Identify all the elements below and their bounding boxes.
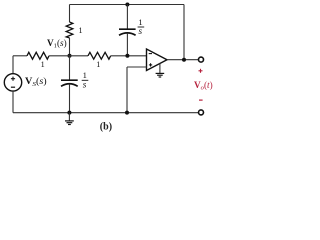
node ground junction [67, 111, 71, 115]
wire left drop from top rail [69, 5, 71, 23]
wire op-amp output [167, 59, 198, 61]
svg-text:1: 1 [96, 60, 100, 69]
wire resistor to node V1 [69, 38, 71, 56]
node A junction (cap / minus input) [125, 54, 129, 58]
resistor R1 value 1 (horizontal) [27, 52, 49, 59]
node junction bottom (noninverting column) [125, 111, 129, 115]
node junction top (cap tap) [125, 3, 129, 7]
value label 1/s of capacitor C1 [82, 70, 89, 89]
bottom ground rail wire [13, 112, 198, 114]
svg-text:V1(s): V1(s) [47, 38, 67, 50]
wire R1 to node V1 to R2 [49, 55, 88, 57]
svg-text:1: 1 [79, 26, 83, 35]
svg-text:s: s [139, 26, 143, 36]
wire R2 to op-amp inverting input [111, 55, 147, 57]
ground at op-amp [156, 64, 165, 78]
resistor R_f value 1 (vertical) [66, 22, 73, 38]
wire noninverting input column to ground rail [126, 67, 128, 113]
svg-text:VS(s): VS(s) [25, 76, 47, 88]
terminal minus (open circle) [199, 110, 204, 115]
label output plus sign [199, 69, 203, 73]
capacitor C_f 1/s (top, feedback) [119, 5, 136, 56]
capacitor C1 1/s (node V1 to ground) [61, 56, 78, 113]
node V1 junction dot [68, 54, 72, 58]
wire left column down to source [12, 56, 14, 74]
op-amp U1 [147, 49, 168, 71]
voltage source Vs [4, 74, 21, 91]
wire right drop from top rail to output node [183, 5, 185, 60]
wire top feedback rail [70, 4, 185, 6]
svg-text:(b): (b) [100, 121, 112, 132]
svg-text:s: s [83, 80, 87, 90]
value label 1/s of top capacitor [138, 17, 145, 36]
svg-text:1: 1 [41, 60, 45, 69]
ground symbol bottom [65, 113, 74, 125]
node output junction [182, 58, 186, 62]
wire noninverting input [127, 66, 147, 68]
wire source corner to R1 [13, 55, 27, 57]
wire source bottom to ground rail [12, 91, 14, 113]
terminal plus (open circle) [199, 57, 204, 62]
label output minus sign [199, 99, 203, 101]
resistor R2 value 1 (horizontal) [88, 52, 111, 59]
svg-text:Vo(t): Vo(t) [194, 80, 213, 92]
